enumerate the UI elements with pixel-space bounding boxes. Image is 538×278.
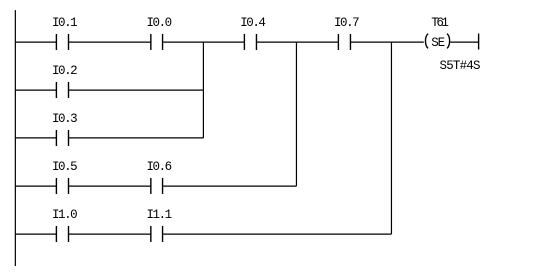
svg-text:T61: T61: [431, 16, 449, 30]
svg-text:I0.1: I0.1: [52, 16, 78, 30]
svg-text:S5T#4S: S5T#4S: [440, 59, 481, 73]
svg-text:SE: SE: [431, 36, 445, 50]
svg-text:I0.0: I0.0: [147, 16, 173, 30]
svg-text:I0.3: I0.3: [52, 112, 78, 126]
svg-text:I0.7: I0.7: [334, 16, 360, 30]
svg-text:I1.0: I1.0: [52, 208, 78, 222]
svg-text:I0.6: I0.6: [147, 160, 173, 174]
svg-text:I0.4: I0.4: [240, 16, 266, 30]
svg-text:I1.1: I1.1: [147, 208, 173, 222]
svg-text:I0.5: I0.5: [52, 160, 78, 174]
svg-text:I0.2: I0.2: [52, 64, 78, 78]
